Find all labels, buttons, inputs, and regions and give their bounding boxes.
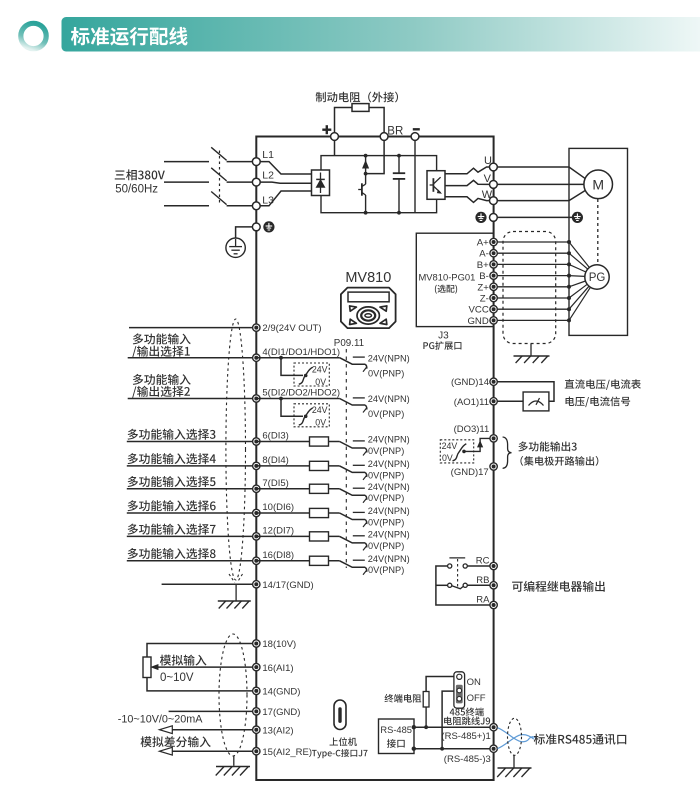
label 选配 <box>435 285 457 294</box>
wire DI2 <box>128 398 253 400</box>
wire input phase R <box>164 161 209 163</box>
terminal + (DC bus positive) <box>331 133 339 141</box>
svg-text:(DO3)11: (DO3)11 <box>454 424 490 435</box>
terminal 13(AI2) <box>253 726 260 733</box>
wire Z- to encoder <box>569 284 587 298</box>
terminal 8(DI4) <box>253 462 260 469</box>
svg-text:BR: BR <box>387 125 403 137</box>
NPN/PNP selector blade <box>340 513 366 520</box>
dash 24V NPN <box>353 559 365 561</box>
shield drain DI <box>235 584 237 600</box>
ground symbol analog shield <box>216 766 250 768</box>
shield taper dashes DI <box>229 574 235 583</box>
relay armature bar <box>449 557 465 559</box>
label 多功能输入选择7 <box>128 524 216 535</box>
input resistor 16(DI8) <box>256 560 339 562</box>
svg-text:14/17(GND): 14/17(GND) <box>262 580 313 591</box>
terminal 15(AI2_RE) <box>253 748 260 755</box>
inverter IGBT symbol <box>430 184 434 186</box>
terminal VCC <box>490 306 497 313</box>
wire A- to encoder <box>569 253 588 269</box>
wire input phase T <box>164 205 209 207</box>
svg-text:VCC: VCC <box>469 305 489 316</box>
svg-text:(RS-485+)1: (RS-485+)1 <box>441 731 490 742</box>
svg-text:J3: J3 <box>438 331 449 342</box>
wire 24V OUT <box>129 327 253 329</box>
wire DO3 to terminal with arrow <box>464 438 490 451</box>
terminal (RS-485+)1 <box>490 724 497 731</box>
wire IK to U with jog <box>445 167 490 174</box>
shield drain analog <box>233 756 235 766</box>
svg-text:10(DI6): 10(DI6) <box>262 502 294 513</box>
dashed box DO3 driver <box>440 440 473 463</box>
svg-text:Z-: Z- <box>480 294 489 305</box>
wire RS485+ <box>414 726 490 728</box>
terminal 17(GND) <box>253 708 260 715</box>
wire B+ to encoder <box>569 264 586 272</box>
svg-text:24V(NPN): 24V(NPN) <box>368 435 410 445</box>
svg-text:5(DI2/DO2/HDO2): 5(DI2/DO2/HDO2) <box>262 388 340 399</box>
svg-text:W: W <box>482 189 493 201</box>
terminal Z- <box>490 294 497 301</box>
terminal PE output <box>490 214 498 222</box>
wire 17(GND) <box>169 710 253 712</box>
label 电压/电流信号 <box>566 397 631 408</box>
svg-text:24V(NPN): 24V(NPN) <box>368 482 410 492</box>
junction dot A+ motor side <box>567 240 571 244</box>
terminal W <box>490 197 498 205</box>
svg-text:-10~10V/0~20mA: -10~10V/0~20mA <box>118 714 203 726</box>
keypad panel <box>341 288 396 329</box>
wire blade to L3 <box>227 205 253 207</box>
wire PG signal GND <box>494 319 569 321</box>
wire 6(DI3) <box>127 441 253 443</box>
terminal 5(DI2) <box>253 395 260 402</box>
protective earth circle symbol <box>226 238 245 257</box>
svg-text:PG: PG <box>589 272 606 284</box>
svg-text:RB: RB <box>476 575 489 586</box>
NPN/PNP selector blade <box>340 358 366 365</box>
wire A+ to encoder <box>569 242 589 268</box>
svg-text:0~10V: 0~10V <box>160 672 194 684</box>
terminal 12(DI7) <box>253 533 260 540</box>
minus sign <box>413 128 420 130</box>
terminating resistor R485 <box>423 692 429 708</box>
wire blade to L2 <box>227 181 253 183</box>
USB Type-C connector J7 <box>334 700 346 730</box>
svg-text:24V(NPN): 24V(NPN) <box>368 554 410 564</box>
NPN/PNP selector blade <box>340 489 366 496</box>
PE symbol drive input <box>263 221 274 232</box>
wire PG signal B+ <box>494 263 569 265</box>
svg-text:0V(PNP): 0V(PNP) <box>368 470 404 480</box>
DI2 driver curve <box>299 408 313 425</box>
terminal L1 <box>252 158 260 166</box>
junction dot chopper BR <box>364 172 368 176</box>
jumper switch J9 <box>454 672 465 708</box>
svg-text:A+: A+ <box>477 238 489 249</box>
svg-text:0V: 0V <box>315 377 326 387</box>
svg-text:24V: 24V <box>442 441 458 451</box>
junction dot top bus capacitor <box>397 154 401 158</box>
dash 24V NPN <box>353 464 365 466</box>
svg-text:(GND)14: (GND)14 <box>451 377 489 388</box>
svg-text:0V(PNP): 0V(PNP) <box>368 368 404 378</box>
svg-text:16(DI8): 16(DI8) <box>262 550 294 561</box>
PG card box MV810-PG01 <box>416 233 493 326</box>
label 多功能输出3 <box>518 441 576 451</box>
keypad corner keys <box>350 306 357 311</box>
wire J9 mid pin to RS485- line <box>442 691 456 749</box>
wire 15(AI2_RE) with arrow <box>172 750 253 752</box>
svg-text:RA: RA <box>476 594 490 605</box>
wire 7(DI5) <box>127 488 253 490</box>
label brake resistor 制动电阻（外接） <box>316 92 398 103</box>
NPN/PNP selector blade <box>340 399 366 406</box>
svg-text:RS-485: RS-485 <box>380 725 412 735</box>
terminal B+ <box>490 261 497 268</box>
terminal GND <box>490 317 497 324</box>
terminal 4(DI1) <box>253 354 260 361</box>
wire PG signal A- <box>494 252 569 254</box>
wire input phase S <box>164 181 209 183</box>
wire brake resistor right leg <box>366 108 385 174</box>
shield drain wire PG <box>530 344 532 356</box>
wire PE to motor ground <box>497 216 572 218</box>
terminal BR (brake resistor) <box>380 133 388 141</box>
input resistor 12(DI7) <box>256 535 339 537</box>
switch blade R <box>211 147 226 160</box>
shield dashed ellipse analog cable <box>219 634 247 756</box>
wire Z+ to encoder <box>569 281 586 287</box>
svg-text:(GND)17: (GND)17 <box>451 467 489 478</box>
wire IK to V with jog <box>445 180 490 185</box>
shield drain RS485 <box>513 756 515 769</box>
header title 标准运行配线 <box>71 27 188 46</box>
wire 16(DI8) <box>127 560 253 562</box>
pot wiper arrow <box>152 665 159 670</box>
terminal Z+ <box>490 283 497 290</box>
terminal 18(10V) <box>253 640 260 647</box>
wire 8(DI4) <box>127 465 253 467</box>
junction dot top bus chopper <box>364 154 368 158</box>
svg-text:17(GND): 17(GND) <box>262 707 300 718</box>
terminal (RS-485-)3 <box>490 745 497 752</box>
label 多功能输入 DI1 <box>133 333 191 344</box>
power circuit box <box>321 156 437 213</box>
wire AI1 <box>158 666 253 668</box>
wire J9 top to resistor <box>426 677 454 692</box>
NPN/PNP boundary dashed line <box>345 349 347 568</box>
label 485终端 <box>450 708 484 717</box>
rectifier box <box>312 170 330 196</box>
svg-text:50/60Hz: 50/60Hz <box>115 184 158 196</box>
wire B- to encoder <box>569 275 585 278</box>
label /输出选择2 <box>132 386 190 398</box>
svg-text:U: U <box>484 155 492 167</box>
PE symbol drive output <box>475 212 486 223</box>
terminal RA <box>490 601 497 608</box>
terminal (DO3)11 <box>490 435 497 442</box>
potentiometer RP1 <box>143 657 151 678</box>
dash 24V NPN <box>353 356 365 358</box>
terminal L3 <box>252 202 260 210</box>
svg-text:24V(NPN): 24V(NPN) <box>368 459 410 469</box>
NPN/PNP selector blade <box>340 466 366 473</box>
ground symbol RS485 shield <box>498 767 532 769</box>
wire RB to terminal <box>467 584 489 586</box>
svg-text:0V(PNP): 0V(PNP) <box>368 409 404 419</box>
wire DI1 <box>128 357 253 359</box>
inverter IGBT module box <box>427 171 445 200</box>
wire IK to W with jog <box>445 197 490 203</box>
dashed box DI2 driver <box>294 404 329 427</box>
switch blade S <box>211 168 226 181</box>
wire brake resistor left leg <box>335 108 353 156</box>
svg-text:GND: GND <box>467 316 488 327</box>
terminal 14(GND) <box>253 687 260 694</box>
terminal 10(DI6) <box>253 509 260 516</box>
junction dot GND motor side <box>567 318 571 322</box>
wire relay left bus <box>436 566 490 605</box>
label 上位机 <box>330 737 357 746</box>
dashed shield around PG wires <box>503 232 556 344</box>
relay contact RB with blade <box>448 583 452 587</box>
RS-485 interface box <box>379 719 415 754</box>
terminal (GND)17 <box>490 463 497 470</box>
wire DI1 to driver box <box>256 358 339 376</box>
DC bus capacitor C1 <box>398 156 400 174</box>
terminal U <box>490 163 498 171</box>
terminal RB <box>490 582 497 589</box>
label 三相380V <box>115 169 165 180</box>
wire resistor to RS485+ line <box>425 707 427 727</box>
wire 12(DI7) <box>127 535 253 537</box>
svg-text:24V(NPN): 24V(NPN) <box>368 353 410 363</box>
wire PG signal VCC <box>494 308 569 310</box>
svg-text:P09.11: P09.11 <box>334 338 364 349</box>
wire PG signal A+ <box>494 241 569 243</box>
brake chopper diode <box>365 156 367 174</box>
svg-text:12(DI7): 12(DI7) <box>262 526 294 537</box>
dashed shaft motor to encoder <box>597 199 599 265</box>
svg-text:B+: B+ <box>477 260 489 271</box>
svg-text:RC: RC <box>476 555 490 566</box>
svg-text:2/9(24V OUT): 2/9(24V OUT) <box>262 323 321 334</box>
dash 24V NPN <box>353 511 365 513</box>
motor M1 circle <box>584 170 613 199</box>
inverter drive outline box <box>256 137 493 781</box>
svg-text:24V: 24V <box>312 405 328 415</box>
svg-text:24V: 24V <box>312 364 328 374</box>
svg-text:0V: 0V <box>315 418 326 428</box>
ground symbol DI shield <box>218 600 251 602</box>
svg-text:V: V <box>484 173 492 185</box>
svg-text:L2: L2 <box>262 169 274 181</box>
NPN/PNP selector blade <box>340 442 366 449</box>
label 可编程继电器输出 <box>512 581 605 592</box>
wire 13(AI2) with arrow <box>172 729 253 731</box>
svg-text:18(10V): 18(10V) <box>262 639 296 650</box>
svg-text:0V(PNP): 0V(PNP) <box>368 517 404 527</box>
label 多功能输入选择8 <box>128 548 216 559</box>
svg-text:8(DI4): 8(DI4) <box>262 455 288 466</box>
NPN/PNP selector blade <box>340 536 366 543</box>
dash 24V NPN <box>353 535 365 537</box>
svg-text:Z+: Z+ <box>477 282 489 293</box>
wire minus DC bus leg <box>414 137 416 213</box>
svg-text:0V(PNP): 0V(PNP) <box>368 541 404 551</box>
wire L2 to rectifier <box>260 182 311 183</box>
terminal - (DC bus negative) <box>411 133 419 141</box>
input resistor 10(DI6) <box>256 512 339 514</box>
svg-text:ON: ON <box>467 677 481 688</box>
svg-text:M: M <box>592 176 604 192</box>
svg-text:4(DI1/DO1/HDO1): 4(DI1/DO1/HDO1) <box>262 347 340 358</box>
wire AO1 to meter <box>494 400 523 402</box>
brace DO3 outputs <box>503 437 512 468</box>
junction dot VCC motor side <box>567 307 571 311</box>
shield dashed ellipse RS485 <box>508 718 522 755</box>
svg-text:L1: L1 <box>262 149 274 161</box>
NPN/PNP selector blade <box>340 561 366 568</box>
junction dot Z- motor side <box>567 296 571 300</box>
wire PE to earth <box>236 227 253 238</box>
svg-text:MV810-PG01: MV810-PG01 <box>418 271 475 282</box>
switch blade T <box>211 192 226 205</box>
junction dot bottom bus capacitor <box>397 211 401 215</box>
header title bar <box>62 17 700 52</box>
label Type-C接口J7 <box>312 749 368 758</box>
wire L3 to rectifier <box>260 191 311 206</box>
junction dot B+ motor side <box>567 262 571 266</box>
ground symbol PG shield <box>514 355 550 357</box>
wire PG signal Z+ <box>494 286 569 288</box>
terminal (AO1)11 <box>490 398 497 405</box>
terminal RC <box>490 562 497 569</box>
terminal V <box>490 181 498 189</box>
encoder PG circle <box>585 265 609 289</box>
wire VCC to encoder <box>569 286 589 309</box>
DI1 driver curve <box>299 367 313 384</box>
svg-text:L3: L3 <box>262 194 274 206</box>
dash 24V NPN <box>353 397 365 399</box>
svg-text:24V(NPN): 24V(NPN) <box>368 506 410 516</box>
twisted pair blue <box>498 728 530 742</box>
label 直流电压/电流表 <box>565 379 641 390</box>
label 多功能输入选择3 <box>128 429 216 440</box>
label 多功能输入选择6 <box>128 500 216 511</box>
svg-text:(RS-485-)3: (RS-485-)3 <box>444 754 491 765</box>
wire V to motor <box>497 183 584 185</box>
wire PG signal Z- <box>494 297 569 299</box>
wire 10(DI6) <box>127 512 253 514</box>
wire U to motor <box>497 167 585 179</box>
svg-text:0V(PNP): 0V(PNP) <box>368 565 404 575</box>
wire RC to terminal <box>467 565 489 567</box>
svg-text:24V(NPN): 24V(NPN) <box>368 394 410 404</box>
label 模拟差分输入 <box>141 736 211 747</box>
wire PG signal B- <box>494 275 569 277</box>
svg-text:0V: 0V <box>442 453 453 463</box>
switch linkage dashed <box>219 151 221 203</box>
terminal 6(DI3) <box>253 438 260 445</box>
wire GND14 to meter <box>494 382 554 402</box>
wire 10V supply <box>147 644 253 658</box>
PE symbol motor <box>572 212 583 223</box>
DO3 transistor curve <box>453 444 467 461</box>
label 集电极开路输出 <box>520 456 598 466</box>
svg-text:13(AI2): 13(AI2) <box>262 725 293 736</box>
relay armature dashed link <box>457 559 459 587</box>
terminal 16(DI8) <box>253 557 260 564</box>
svg-text:14(GND): 14(GND) <box>262 687 300 698</box>
label 多功能输入 DI2 <box>133 374 191 385</box>
terminal L2 <box>252 178 260 186</box>
input resistor 8(DI4) <box>256 465 339 467</box>
label /输出选择1 <box>132 346 190 358</box>
svg-text:(AO1)11: (AO1)11 <box>454 397 489 408</box>
label 电阻跳线J9 <box>444 717 490 726</box>
terminal PE input <box>252 223 260 231</box>
brake resistor BR1 <box>352 104 369 112</box>
wire RB left stub <box>436 584 448 586</box>
svg-text:24V(NPN): 24V(NPN) <box>368 530 410 540</box>
keypad wheel <box>357 307 379 324</box>
terminal 16(AI1) <box>253 663 260 670</box>
svg-text:0V(PNP): 0V(PNP) <box>368 446 404 456</box>
label PG扩展口 <box>423 341 461 350</box>
terminal 14/17(GND) <box>253 581 260 588</box>
terminal A- <box>490 250 497 257</box>
rectifier diode D1 <box>320 173 322 194</box>
meter M2 <box>523 392 549 411</box>
label 多功能输入选择5 <box>128 476 216 487</box>
label 模拟输入 <box>160 655 207 666</box>
wire RS485- <box>414 748 490 750</box>
dash 24V NPN <box>353 487 365 489</box>
terminal A+ <box>490 238 497 245</box>
label 终端电阻 <box>385 694 422 703</box>
shield dashed ellipse DI cable <box>226 319 246 580</box>
header ring icon <box>21 23 46 48</box>
svg-text:B-: B- <box>479 271 489 282</box>
terminal 7(DI5) <box>253 485 260 492</box>
svg-text:16(AI1): 16(AI1) <box>262 663 293 674</box>
junction dot A- motor side <box>567 251 571 255</box>
wire L1 to rectifier <box>260 162 311 174</box>
label 多功能输入选择4 <box>128 453 216 464</box>
label 标准RS485通讯口 <box>534 734 627 745</box>
wire blade to L1 <box>227 161 253 163</box>
terminal B- <box>490 272 497 279</box>
dash 24V NPN <box>353 440 365 442</box>
wire pot bottom to GND <box>147 678 253 691</box>
junction dot bottom bus chopper <box>364 211 368 215</box>
relay contact RC <box>448 564 452 568</box>
wire GND to encoder <box>569 287 590 320</box>
svg-text:6(DI3): 6(DI3) <box>262 431 288 442</box>
svg-text:A-: A- <box>479 249 489 260</box>
svg-text:7(DI5): 7(DI5) <box>262 478 288 489</box>
input resistor 7(DI5) <box>256 488 339 490</box>
svg-text:15(AI2_RE): 15(AI2_RE) <box>262 747 312 758</box>
svg-text:0V(PNP): 0V(PNP) <box>368 493 404 503</box>
svg-text:MV810: MV810 <box>345 270 391 286</box>
plus sign <box>322 128 331 130</box>
wire digital common <box>162 583 253 585</box>
input resistor 6(DI3) <box>256 441 339 443</box>
